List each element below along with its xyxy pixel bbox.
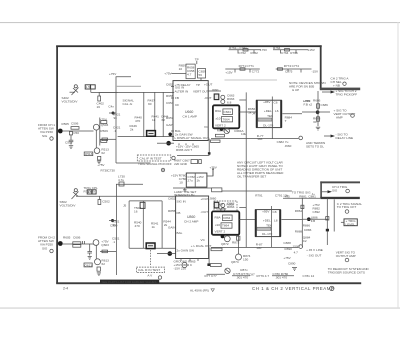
svg-text:T864: T864 bbox=[222, 224, 229, 228]
attenuator block bottom wire bbox=[118, 136, 174, 138]
page bottom edge line bbox=[0, 308, 400, 309]
inter-stage hybrid block thick border bbox=[213, 105, 239, 128]
svg-text:J860: J860 bbox=[210, 197, 217, 201]
junction dot at attenuator output bbox=[166, 141, 171, 146]
attenuator divider wire C bbox=[162, 92, 164, 136]
wire U660 output to peaking bbox=[208, 90, 221, 92]
svg-text:R765: R765 bbox=[290, 51, 298, 55]
svg-text:C2: C2 bbox=[303, 239, 307, 243]
svg-text:R686: R686 bbox=[313, 99, 321, 103]
transistor Q2513 bbox=[95, 259, 101, 265]
op-amp hybrid U1660 preamp box bbox=[173, 81, 208, 141]
junction dot under interstage block bbox=[220, 128, 223, 131]
vertical output line ch2 bbox=[301, 198, 303, 247]
svg-text:+OUT: +OUT bbox=[204, 83, 212, 87]
internal gain cell rect ch2 bbox=[223, 215, 233, 221]
svg-text:SIG IN: SIG IN bbox=[175, 86, 184, 90]
hatched termination band inside DL1660 bbox=[258, 118, 272, 121]
note text top right corner bbox=[289, 81, 326, 92]
svg-text:C775: C775 bbox=[285, 70, 293, 74]
sheet ref circle at CH2 input bbox=[50, 249, 53, 252]
resistor R1506 drop bbox=[69, 132, 72, 135]
svg-text:R8A: R8A bbox=[215, 216, 222, 220]
sheet tab 2 left line bbox=[320, 181, 322, 198]
delay line driver box DL1660 bbox=[256, 100, 281, 127]
vertical line x327 ch2 bbox=[326, 198, 328, 245]
ch2 attenuator block bottom wire bbox=[129, 247, 176, 249]
svg-text:BAL: BAL bbox=[177, 231, 183, 235]
svg-text:C664: C664 bbox=[224, 110, 232, 114]
capacitor C2606 small marks bbox=[82, 241, 84, 244]
boxed component on ch2 bus bbox=[211, 248, 222, 251]
decoupling row2 left wire bbox=[225, 68, 259, 70]
svg-text:SIG: SIG bbox=[42, 247, 48, 251]
svg-text:R672: R672 bbox=[217, 129, 225, 133]
attenuator balance pot cluster bbox=[74, 85, 77, 88]
svg-text:4.7u: 4.7u bbox=[118, 178, 124, 182]
svg-text:VOLTS/DIV: VOLTS/DIV bbox=[62, 100, 79, 104]
svg-text:+15V: +15V bbox=[308, 48, 316, 52]
trig pickoff dashed box bbox=[137, 155, 171, 161]
wire output node to CH2 arrow bbox=[302, 111, 330, 113]
wire stub below tab1 corner bbox=[317, 91, 319, 98]
ground below C2607 bbox=[88, 256, 92, 258]
feedthrough capacitor dark blob bottom half bbox=[111, 219, 114, 222]
wire ch2 atten row bbox=[76, 195, 176, 197]
svg-text:L8: L8 bbox=[274, 219, 278, 223]
svg-text:SEE PARTS LIST FOR EARLIER VAL: SEE PARTS LIST FOR EARLIER VALUES bbox=[102, 280, 157, 284]
svg-text:2k: 2k bbox=[130, 127, 134, 131]
svg-text:+75V: +75V bbox=[109, 72, 117, 76]
svg-text:16: 16 bbox=[134, 210, 138, 214]
ground at output vertical bbox=[316, 126, 320, 128]
feedthrough capacitor dark blob top half bbox=[112, 112, 115, 115]
svg-text:100: 100 bbox=[256, 246, 261, 250]
peaking coil small dark box bbox=[214, 94, 219, 100]
svg-text:CAL IF IN TEST: CAL IF IN TEST bbox=[140, 156, 162, 160]
svg-text:10: 10 bbox=[179, 181, 183, 185]
svg-text:30: 30 bbox=[313, 120, 317, 124]
svg-text:FB: FB bbox=[177, 211, 181, 215]
svg-text:R862: R862 bbox=[295, 209, 303, 213]
schematic sheet border bottom bbox=[56, 282, 361, 284]
svg-text:GAIN: GAIN bbox=[166, 123, 174, 127]
svg-text:.1: .1 bbox=[113, 240, 116, 244]
wire pickoff to dashed box bbox=[177, 154, 209, 156]
resistor boxes on output vertical bbox=[317, 104, 320, 108]
svg-text:J660: J660 bbox=[212, 88, 219, 92]
wire trig bus to tab2 bbox=[222, 190, 292, 192]
svg-text:+ 45 V LINE: + 45 V LINE bbox=[306, 248, 323, 252]
transistor Q2665 below U2660 bbox=[182, 262, 187, 267]
ground below C1507 bbox=[69, 145, 73, 147]
transistor Q1513 bbox=[94, 148, 100, 154]
sheet ref circle vert sig bbox=[345, 258, 349, 262]
svg-text:INTENSITY Bx: INTENSITY Bx bbox=[174, 193, 195, 197]
power filter box B above U660 bbox=[198, 69, 206, 79]
svg-text:R657: R657 bbox=[166, 116, 174, 120]
svg-text:x10: x10 bbox=[216, 117, 221, 121]
page top edge line bbox=[0, 22, 400, 23]
sheet ref circle in tab2 bbox=[346, 189, 350, 193]
switch contact box 1.5M bbox=[85, 85, 90, 89]
op-amp hybrid U2660 preamp box bbox=[176, 196, 209, 259]
svg-text:J5: J5 bbox=[123, 204, 127, 208]
svg-text:R779 4.7: R779 4.7 bbox=[257, 274, 270, 278]
wire CH2 input to Q2503 base bbox=[62, 243, 94, 245]
svg-text:.1: .1 bbox=[114, 129, 117, 133]
vertical drop from ch2 bus bbox=[208, 247, 210, 264]
svg-text:CAL Jx: CAL Jx bbox=[123, 102, 133, 106]
svg-text:+95V: +95V bbox=[262, 210, 270, 214]
boxed label under Q1672 bbox=[215, 134, 224, 137]
wire stubs below U2660 bbox=[180, 259, 182, 262]
svg-text:VOLTS/DIV: VOLTS/DIV bbox=[60, 204, 77, 208]
svg-text:CH 2 AMP: CH 2 AMP bbox=[184, 220, 198, 224]
vertical line x334 ch2 bbox=[333, 199, 335, 231]
svg-text:SIG: SIG bbox=[42, 134, 48, 138]
arrow in tab2 bbox=[328, 190, 333, 193]
decoupling row1 left wire bbox=[229, 49, 262, 51]
svg-text:- SIG OUT: - SIG OUT bbox=[307, 254, 322, 258]
svg-text:C606: C606 bbox=[73, 236, 81, 240]
sheet number diamond circle bbox=[330, 286, 334, 290]
svg-text:C791 10k: C791 10k bbox=[275, 194, 289, 198]
wire interstage ch2 to delay box bbox=[239, 219, 255, 221]
sheet ref circle pickoff ch2 bbox=[158, 276, 161, 279]
schematic sheet border top bbox=[56, 45, 322, 47]
wire interstage to rail bbox=[239, 99, 246, 101]
switch contact box 1.5M ch2 bbox=[87, 190, 92, 194]
boxed component on top bus bbox=[211, 140, 221, 142]
transistor Q2503 bbox=[93, 240, 99, 246]
svg-text:C774: C774 bbox=[292, 64, 300, 68]
collector chain vertical Q1503 bbox=[99, 118, 101, 146]
svg-text:220 GND: 220 GND bbox=[174, 162, 188, 166]
svg-text:62: 62 bbox=[101, 151, 105, 155]
svg-text:C4x: C4x bbox=[108, 105, 114, 109]
junction dot output node bbox=[316, 110, 320, 114]
svg-text:AMP: AMP bbox=[336, 116, 343, 120]
small relay boxes below U660 bbox=[191, 160, 198, 164]
junction dot at U660 lower left pin bbox=[168, 133, 172, 137]
notes paragraph block bbox=[237, 161, 284, 179]
resistor below Q1513 bbox=[98, 156, 101, 160]
resistor box on collector chain lower bbox=[101, 139, 107, 142]
svg-text:R605: R605 bbox=[63, 236, 71, 240]
svg-text:R886: R886 bbox=[303, 224, 311, 228]
svg-text:+ L DUAL OUT: + L DUAL OUT bbox=[191, 244, 212, 248]
svg-text:+75V: +75V bbox=[164, 72, 172, 76]
svg-text:DL-170: DL-170 bbox=[262, 232, 272, 236]
vertical bus rail mid bbox=[245, 92, 247, 247]
svg-text:L DISPLAY SIGNAL OUT: L DISPLAY SIGNAL OUT bbox=[175, 136, 210, 140]
svg-text:10k: 10k bbox=[241, 132, 246, 136]
svg-text:C652: C652 bbox=[166, 83, 174, 87]
svg-text:& UP: & UP bbox=[292, 88, 299, 92]
wire Q2503 emitter down bbox=[95, 245, 97, 258]
svg-text:CH 1 AMP: CH 1 AMP bbox=[183, 115, 197, 119]
ground stub mid bbox=[184, 188, 186, 190]
component on x327 line bbox=[326, 217, 329, 220]
parts list black banner bbox=[100, 280, 159, 284]
sheet tab 2 top line bbox=[320, 181, 360, 183]
wire Q1513 to attn bottom bbox=[116, 162, 151, 164]
svg-text:U660: U660 bbox=[185, 110, 193, 114]
junction blob on x327 bbox=[326, 229, 329, 232]
transistor Q1503 input source follower bbox=[93, 124, 99, 130]
svg-text:SIG IN: SIG IN bbox=[177, 200, 186, 204]
ch2 attenuator divider wire B bbox=[142, 201, 144, 248]
wire U660 bottom stubs bbox=[178, 143, 180, 145]
sheet ref circle tab1 bbox=[343, 82, 346, 85]
svg-text:Q872: Q872 bbox=[221, 242, 229, 246]
svg-text:90: 90 bbox=[148, 102, 152, 106]
svg-text:R77 C77: R77 C77 bbox=[205, 274, 217, 278]
wire interstage to delay line box bbox=[239, 111, 256, 113]
svg-text:5k: 5k bbox=[248, 111, 252, 115]
svg-text:R665 220 T: R665 220 T bbox=[176, 148, 192, 152]
arrow to CH2 trigger bbox=[331, 91, 336, 94]
wire Q2503 collector to rail bbox=[100, 250, 116, 252]
capacitor stubs decoupling row1 left bbox=[237, 50, 239, 54]
svg-text:R890: R890 bbox=[285, 247, 293, 251]
variable capacitor C1663 bbox=[221, 95, 225, 99]
svg-text:+95V: +95V bbox=[263, 100, 271, 104]
peaking coil small dark box ch2 bbox=[214, 202, 219, 208]
svg-text:R888: R888 bbox=[295, 230, 303, 234]
resistor box on collector chain upper bbox=[101, 121, 107, 124]
svg-text:T: T bbox=[285, 119, 287, 123]
internal gain cell rect bbox=[223, 109, 233, 115]
svg-text:C886: C886 bbox=[304, 228, 312, 232]
decoupling row1 right wire bbox=[273, 49, 309, 51]
svg-text:J4: J4 bbox=[252, 112, 256, 116]
wire decoupling box to +75V arrow bbox=[207, 170, 213, 176]
svg-text:Q874: Q874 bbox=[231, 260, 239, 264]
horizontal bus below delay area bbox=[211, 138, 299, 140]
svg-text:C6: C6 bbox=[274, 101, 278, 105]
svg-text:470: 470 bbox=[135, 119, 140, 123]
horizontal bus bottom half bbox=[211, 246, 299, 248]
attenuator divider wire A bbox=[143, 92, 145, 136]
faint bus wire below decoupling rows bbox=[225, 79, 278, 81]
L wire upper rail bbox=[116, 77, 131, 163]
sheet tab 2 bottom line bbox=[320, 197, 360, 199]
svg-text:C771: C771 bbox=[247, 64, 255, 68]
svg-text:Q603: Q603 bbox=[101, 243, 109, 247]
svg-text:F.B x2: F.B x2 bbox=[304, 103, 313, 107]
capacitor stubs decoupling row2 right bbox=[287, 69, 289, 73]
svg-text:T664: T664 bbox=[223, 117, 230, 121]
svg-text:-OUT: -OUT bbox=[201, 210, 209, 214]
svg-text:C762: C762 bbox=[239, 51, 247, 55]
arrow lower to delay line connector bbox=[331, 135, 336, 138]
rail through delay box bbox=[271, 97, 273, 139]
wire delay box output right bbox=[282, 113, 302, 115]
svg-text:C686: C686 bbox=[321, 103, 329, 107]
sheet ref circle at bottom bus end bbox=[299, 136, 303, 140]
resistor R1402 drop bbox=[98, 92, 100, 96]
svg-text:CH 1 & CH 2 VERTICAL PREAMP: CH 1 & CH 2 VERTICAL PREAMP bbox=[252, 286, 334, 291]
sheet ref circle at ch2 bus end bbox=[299, 245, 303, 249]
svg-text:6.8: 6.8 bbox=[227, 101, 232, 105]
sheet ref circle output bbox=[351, 114, 355, 118]
wire Q1503 emitter down bbox=[95, 130, 97, 148]
wire junction to U660 bbox=[169, 142, 174, 144]
junction dot ch2 attenuator output bbox=[168, 251, 173, 256]
svg-text:+75V: +75V bbox=[260, 48, 268, 52]
svg-text:VERT 2: VERT 2 bbox=[215, 230, 226, 234]
ch2 attenuator divider wire C bbox=[161, 201, 163, 248]
svg-text:TRIG SIGNAL PICKOFF: TRIG SIGNAL PICKOFF bbox=[138, 162, 172, 166]
attenuator block upper boundary bbox=[117, 85, 141, 87]
svg-text:16: 16 bbox=[97, 105, 101, 109]
svg-text:L6: L6 bbox=[275, 109, 279, 113]
decoupling box mid bbox=[186, 173, 207, 187]
svg-text:C888: C888 bbox=[283, 241, 291, 245]
svg-text:VC: VC bbox=[201, 238, 206, 242]
capacitor stubs decoupling row2 left bbox=[234, 69, 236, 73]
thermal compensation component TC1450 dark box bbox=[147, 131, 156, 137]
svg-text:62: 62 bbox=[162, 118, 166, 122]
trig pickoff dashed box ch2 bbox=[136, 267, 164, 272]
svg-text:AL 45V6 (FR): AL 45V6 (FR) bbox=[190, 289, 209, 293]
svg-text:CF: CF bbox=[175, 103, 179, 107]
svg-text:C890: C890 bbox=[288, 262, 296, 266]
thermal comp component TC2450 dark box bbox=[146, 243, 155, 249]
node CH1 input terminal dot bbox=[58, 129, 63, 134]
resistor below Q2513 bbox=[97, 267, 100, 271]
svg-text:C513: C513 bbox=[65, 141, 73, 145]
svg-text:C8: C8 bbox=[273, 210, 277, 214]
wire junction to U2660 bbox=[157, 253, 176, 255]
svg-text:R791: R791 bbox=[255, 194, 263, 198]
svg-text:C772: C772 bbox=[252, 70, 260, 74]
svg-text:C764: C764 bbox=[281, 51, 289, 55]
svg-text:TO TRIG SIG: TO TRIG SIG bbox=[292, 191, 311, 195]
sheet ref circle at CH1 input bbox=[50, 137, 53, 140]
transistor Q2674 lower bbox=[236, 254, 242, 260]
gray note to readout bbox=[328, 267, 370, 274]
schematic sheet border left bbox=[56, 46, 58, 284]
sheet tab 1 thick line to next sheet bbox=[320, 88, 360, 91]
svg-text:1k: 1k bbox=[197, 179, 201, 183]
svg-text:F.B: F.B bbox=[311, 219, 315, 223]
svg-text:1k: 1k bbox=[152, 118, 156, 122]
svg-text:ALTER IN: ALTER IN bbox=[175, 90, 189, 94]
bottom wire of mid section bbox=[173, 187, 212, 189]
U1660 pin stub wires left bbox=[171, 86, 174, 88]
node CH2 input terminal dot bbox=[58, 241, 63, 246]
page right edge line bbox=[398, 22, 399, 308]
transistor Q2678 bbox=[225, 268, 230, 273]
svg-text:TO TRIG CKT: TO TRIG CKT bbox=[337, 205, 357, 209]
wire to Q2678 bbox=[207, 273, 226, 275]
schematic sheet border right upper segment bbox=[320, 45, 322, 89]
svg-text:J+: J+ bbox=[312, 192, 316, 196]
svg-text:R774: R774 bbox=[284, 64, 292, 68]
junction dot ch2 output node bbox=[307, 217, 311, 221]
svg-text:+DEL: +DEL bbox=[263, 219, 271, 223]
svg-text:C502: C502 bbox=[102, 200, 110, 204]
dashed wire from TC2450 down bbox=[150, 250, 152, 267]
svg-text:R735 1k: R735 1k bbox=[84, 190, 96, 194]
svg-text:R863: R863 bbox=[227, 205, 235, 209]
svg-text:R761—C761: R761—C761 bbox=[229, 46, 247, 50]
svg-text:R509: R509 bbox=[100, 129, 108, 133]
svg-text:C864: C864 bbox=[223, 216, 231, 220]
svg-text:+ NB: + NB bbox=[333, 84, 340, 88]
wire interstage ch2 down to Q2674 bbox=[238, 236, 240, 255]
svg-text:x10: x10 bbox=[215, 223, 220, 227]
transistor Q2672 below block bbox=[224, 236, 230, 242]
svg-text:SETS TO DL: SETS TO DL bbox=[306, 145, 324, 149]
capacitor stubs decoupling row1 right bbox=[280, 50, 282, 54]
attenuator divider wire B bbox=[154, 92, 156, 136]
svg-text:TEK: TEK bbox=[266, 223, 273, 227]
svg-text:VERT 2: VERT 2 bbox=[215, 124, 226, 128]
resistor on collector wire bbox=[102, 138, 108, 141]
junction dot under interstage ch2 bbox=[221, 235, 225, 239]
svg-text:9k: 9k bbox=[113, 223, 117, 227]
svg-text:C730: C730 bbox=[108, 169, 116, 173]
svg-text:C654: C654 bbox=[166, 101, 174, 105]
svg-text:OIL TRANSFER SET: OIL TRANSFER SET bbox=[237, 175, 266, 179]
svg-text:4.7: 4.7 bbox=[294, 251, 299, 255]
ground symbol bottom right area bbox=[292, 267, 297, 269]
svg-text:R655: R655 bbox=[166, 94, 174, 98]
boxed label TRIG right mid bbox=[344, 219, 357, 226]
ch2 attenuator divider wire A bbox=[128, 201, 130, 248]
attenuator pot cluster ch2 bbox=[74, 189, 77, 192]
svg-text:2: 2 bbox=[331, 287, 333, 291]
svg-text:C852: C852 bbox=[168, 197, 176, 201]
svg-text:VERT OUT: VERT OUT bbox=[193, 90, 209, 94]
svg-text:+75V: +75V bbox=[97, 163, 105, 167]
svg-text:C682 7u: C682 7u bbox=[277, 140, 289, 144]
svg-text:+OUT: +OUT bbox=[201, 197, 209, 201]
capacitor C2607 to ground bbox=[89, 244, 91, 252]
svg-text:100: 100 bbox=[257, 137, 262, 141]
internal rect 2 ch2 bbox=[221, 223, 232, 228]
svg-text:1.5: 1.5 bbox=[86, 85, 91, 89]
wire from 1.5M right bbox=[91, 91, 118, 93]
svg-text:GAIN: GAIN bbox=[168, 226, 176, 230]
svg-text:C892: C892 bbox=[313, 210, 321, 214]
svg-text:CAL IF IN TEST: CAL IF IN TEST bbox=[138, 268, 160, 272]
svg-text:SIG: SIG bbox=[332, 189, 338, 193]
sheet ref circle mid left bbox=[161, 168, 164, 171]
ground below Q1513 bbox=[97, 160, 101, 162]
boxed label at blob bbox=[210, 264, 221, 267]
svg-text:150: 150 bbox=[243, 258, 248, 262]
svg-text:+75V: +75V bbox=[303, 99, 311, 103]
decoupling row2 right wire bbox=[276, 68, 312, 70]
wire CH1 input to Q1 base bbox=[62, 130, 94, 132]
svg-text:R771: R771 bbox=[239, 64, 247, 68]
wire ch2 output to right bbox=[302, 218, 328, 220]
junction blob lower mid bbox=[207, 263, 210, 266]
svg-text:-OUT: -OUT bbox=[204, 96, 212, 100]
svg-text:TP: TP bbox=[196, 83, 200, 87]
svg-text:R6A: R6A bbox=[215, 109, 222, 113]
sheet ref circle tab2 bbox=[345, 210, 349, 214]
hatched termination band inside DL2660 bbox=[257, 227, 271, 230]
svg-text:2x GAIN SW: 2x GAIN SW bbox=[177, 249, 195, 253]
svg-text:2x GAIN SW: 2x GAIN SW bbox=[175, 133, 193, 137]
svg-text:R855: R855 bbox=[168, 209, 176, 213]
